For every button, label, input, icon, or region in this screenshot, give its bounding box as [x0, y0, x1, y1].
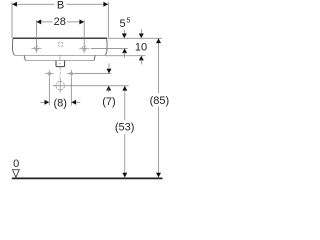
dimension (7)	[102, 63, 115, 108]
dimension 5.5	[119, 18, 130, 58]
dimension 10	[135, 29, 147, 65]
basin bottom lower line	[25, 60, 94, 62]
dimension (8)	[40, 78, 80, 110]
overflow hole	[58, 42, 63, 47]
svg-text:(53): (53)	[115, 122, 135, 134]
zero level marker	[13, 158, 20, 177]
extension line: drain centre to right	[53, 85, 129, 87]
drain outlet circle	[56, 78, 65, 92]
svg-text:(7): (7)	[102, 96, 115, 108]
centre axis above fitting	[59, 54, 61, 60]
basin right edge	[105, 39, 108, 56]
dimension B	[12, 0, 108, 38]
svg-text:28: 28	[54, 16, 66, 28]
svg-text:5: 5	[127, 18, 131, 25]
water connection left	[45, 70, 54, 78]
left tap hole	[31, 46, 41, 50]
basin top edge	[13, 37, 108, 39]
svg-text:B: B	[57, 0, 64, 12]
washbasin outline	[12, 38, 107, 78]
extension line: water connection to right	[76, 73, 112, 75]
extension line: basin top to right	[108, 37, 162, 39]
ext line right	[107, 2, 109, 38]
svg-text:5: 5	[119, 18, 125, 30]
arrow right	[103, 2, 108, 7]
ext line left	[11, 2, 13, 37]
drain fitting	[56, 61, 65, 67]
drain fitting center dot	[59, 63, 60, 64]
svg-text:(8): (8)	[54, 97, 67, 109]
bottom band left step	[24, 56, 25, 61]
floor line	[12, 177, 163, 179]
svg-text:0: 0	[13, 158, 19, 170]
dimension (53)	[113, 86, 137, 177]
right tap hole	[79, 46, 89, 50]
dim line	[12, 3, 108, 5]
centre axis below fitting	[59, 67, 61, 78]
basin bottom upper line	[15, 54, 106, 56]
dimension (85)	[148, 38, 171, 177]
svg-text:(85): (85)	[150, 95, 170, 107]
extension line: bowl bottom to right	[105, 55, 145, 57]
arrow left	[12, 2, 17, 7]
basin left edge	[12, 39, 15, 56]
dimension 28	[36, 16, 84, 53]
water connection right	[67, 70, 76, 78]
svg-text:10: 10	[135, 42, 147, 54]
bottom band right step	[94, 56, 95, 61]
extension line: tap level to right	[91, 47, 128, 49]
